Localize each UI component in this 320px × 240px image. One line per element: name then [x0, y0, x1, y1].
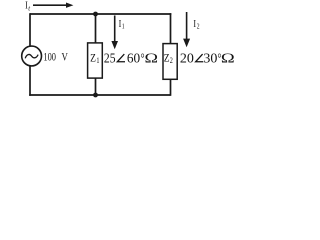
svg-text:I: I [25, 1, 28, 12]
svg-text:Ω: Ω [221, 50, 235, 66]
impedance Z1 box [88, 43, 103, 78]
wire: Z1 branch bottom (Z1 box to node B) [95, 78, 97, 96]
AC source V1 circle [22, 46, 42, 66]
label It [25, 1, 31, 13]
wire: Z2 branch bottom (Z2 box to bottom wire) [170, 79, 172, 96]
wire: top-left segment (source top to node A) [30, 13, 96, 15]
svg-text:I: I [119, 19, 122, 30]
svg-text:I: I [193, 19, 196, 30]
wire: Z1 branch top (node A down to Z1 box) [95, 14, 97, 43]
wire: left side upper (top wire down to source) [29, 13, 31, 46]
svg-text:30: 30 [203, 51, 217, 66]
current arrow It (horizontal, top left) [33, 3, 73, 8]
svg-text:Z: Z [90, 51, 96, 64]
value label 20∠30°Ω for Z2 [180, 50, 235, 67]
svg-text:25: 25 [104, 50, 116, 65]
svg-text:2: 2 [170, 55, 173, 65]
svg-text:60: 60 [127, 50, 140, 65]
AC source sine wave [25, 54, 38, 58]
svg-text:100: 100 [43, 51, 56, 64]
svg-text:20: 20 [180, 51, 194, 66]
label I2 [193, 19, 200, 31]
value label 100 V [43, 51, 68, 64]
node B (bottom junction dot) [93, 93, 98, 98]
wire: bottom segment [29, 94, 170, 96]
label Z2 [164, 51, 173, 65]
wire: top-right segment (node A to Z2 branch corner) [96, 13, 172, 15]
value label 25∠60°Ω for Z1 [104, 50, 158, 66]
label Z1 [90, 51, 100, 65]
impedance Z2 box [163, 44, 177, 80]
current arrow I2 (down into Z2) [183, 12, 190, 47]
svg-text:1: 1 [96, 55, 99, 65]
wire: Z2 branch top (top wire corner down to Z2 box) [170, 13, 172, 44]
svg-text:Ω: Ω [145, 50, 159, 66]
node A (top junction dot) [93, 12, 98, 17]
wire: left side lower (source to bottom wire) [29, 66, 31, 96]
current arrow I1 (down into Z1) [111, 16, 118, 50]
svg-text:V: V [62, 51, 69, 64]
label I1 [119, 19, 125, 31]
svg-text:2: 2 [197, 23, 200, 31]
svg-text:1: 1 [122, 23, 125, 31]
